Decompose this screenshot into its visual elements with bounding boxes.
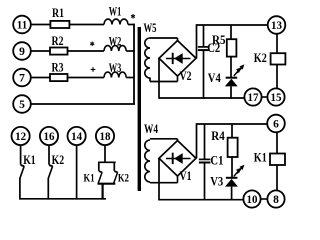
terminal 12 — [12, 127, 30, 145]
wire — [276, 34, 278, 53]
wire — [276, 165, 278, 191]
relay coil K1 — [270, 154, 285, 166]
wire — [150, 37, 178, 39]
wire — [68, 77, 105, 79]
svg-text:5: 5 — [19, 99, 25, 111]
winding W5 — [145, 38, 150, 78]
resistor R1 — [50, 21, 69, 28]
LED V4 light arrows — [234, 69, 240, 76]
svg-text:V1: V1 — [180, 169, 192, 183]
LED V4 — [226, 77, 238, 79]
terminal 14 — [68, 127, 86, 145]
wire — [101, 184, 103, 200]
wire — [20, 198, 106, 200]
svg-text:10: 10 — [247, 194, 258, 206]
svg-text:7: 7 — [19, 73, 25, 85]
contact K1 (under 12) — [20, 145, 22, 165]
wire — [158, 158, 160, 200]
wire — [31, 77, 50, 79]
svg-text:15: 15 — [271, 92, 282, 104]
terminal 16 — [40, 127, 58, 145]
wire — [197, 24, 269, 26]
capacitor C2 — [203, 25, 205, 46]
svg-text:13: 13 — [271, 20, 282, 32]
wire — [177, 38, 179, 42]
svg-text:8: 8 — [273, 194, 279, 206]
svg-text:W5: W5 — [144, 20, 157, 35]
capacitor C1 — [204, 124, 206, 159]
wire — [126, 50, 135, 52]
node pair top bar — [98, 161, 116, 163]
svg-text:V4: V4 — [208, 71, 222, 85]
wire — [177, 76, 179, 82]
wire — [126, 77, 135, 79]
svg-text:11: 11 — [17, 20, 28, 32]
wire — [150, 138, 178, 140]
LED V3 — [226, 177, 238, 179]
terminal 5 — [13, 95, 31, 113]
wire — [276, 65, 278, 89]
contact K1 (under 18) — [98, 162, 100, 171]
svg-text:K2: K2 — [52, 153, 65, 167]
wire — [261, 198, 268, 200]
rectifier V2 — [159, 41, 196, 77]
wire — [177, 139, 179, 142]
polarity mark W3 — [91, 69, 96, 71]
wire — [31, 50, 50, 52]
winding W4 — [145, 140, 150, 182]
svg-text:9: 9 — [19, 46, 25, 58]
terminal 7 — [13, 69, 31, 87]
wire — [31, 103, 135, 105]
svg-text:17: 17 — [248, 92, 259, 104]
resistor R3 — [50, 74, 68, 81]
wire — [276, 132, 278, 153]
wire — [159, 199, 244, 201]
wire — [104, 145, 106, 162]
wire — [196, 24, 198, 58]
svg-text:R4: R4 — [211, 128, 225, 143]
wire — [128, 24, 135, 26]
resistor R4 — [231, 124, 233, 138]
svg-text:18: 18 — [100, 131, 111, 143]
svg-text:W4: W4 — [144, 121, 158, 136]
svg-text:K1: K1 — [23, 153, 36, 167]
svg-text:W3: W3 — [109, 60, 122, 75]
winding W2 — [104, 46, 126, 51]
wire — [149, 181, 151, 184]
wire — [158, 58, 160, 99]
node common bus — [133, 24, 135, 105]
wire — [197, 123, 268, 125]
svg-text:W2: W2 — [109, 34, 122, 49]
LED V3 light arrows — [234, 169, 240, 176]
terminal 13 — [268, 16, 286, 34]
contact K2 (under 16) — [48, 145, 50, 165]
winding W3 — [104, 72, 126, 77]
terminal 18 — [96, 127, 114, 145]
resistor R5 — [230, 25, 232, 39]
terminal 8 — [267, 190, 284, 207]
transformer core — [138, 27, 141, 191]
polarity mark W2 — [91, 42, 93, 47]
svg-text:K2: K2 — [254, 51, 267, 65]
wire — [150, 81, 178, 83]
svg-text:K1: K1 — [84, 171, 95, 185]
terminal 9 — [13, 42, 31, 60]
terminal 6 — [267, 115, 285, 133]
terminal 17 — [244, 88, 261, 105]
relay coil K2 — [271, 53, 286, 64]
svg-text:C1: C1 — [210, 154, 223, 168]
terminal 11 — [13, 16, 31, 34]
svg-text:V2: V2 — [180, 69, 192, 83]
node pair bottom bar — [98, 183, 116, 185]
polarity mark W1 — [132, 14, 134, 19]
svg-text:6: 6 — [273, 119, 279, 131]
svg-text:K1: K1 — [254, 151, 267, 165]
svg-text:R2: R2 — [52, 33, 64, 48]
resistor R2 — [50, 48, 68, 55]
wire — [76, 145, 78, 200]
wire — [262, 96, 268, 98]
svg-text:W1: W1 — [109, 4, 122, 19]
wire — [159, 97, 245, 99]
wire — [149, 78, 151, 82]
wire — [150, 182, 178, 184]
svg-text:R5: R5 — [212, 32, 226, 47]
wire — [31, 24, 51, 26]
rectifier V1 — [159, 141, 196, 177]
svg-text:12: 12 — [15, 131, 26, 143]
terminal 10 — [243, 190, 260, 207]
svg-text:K2: K2 — [118, 170, 129, 184]
svg-text:R3: R3 — [52, 60, 64, 75]
svg-text:16: 16 — [44, 131, 55, 143]
svg-text:R1: R1 — [52, 5, 64, 20]
terminal 15 — [267, 88, 284, 105]
wire — [177, 176, 179, 183]
contact K2 (under 18) — [113, 162, 115, 171]
wire — [196, 123, 198, 158]
wire — [68, 50, 105, 52]
svg-text:14: 14 — [71, 131, 82, 143]
wire — [69, 24, 104, 26]
winding W1 — [104, 19, 128, 24]
svg-text:V3: V3 — [210, 174, 223, 188]
